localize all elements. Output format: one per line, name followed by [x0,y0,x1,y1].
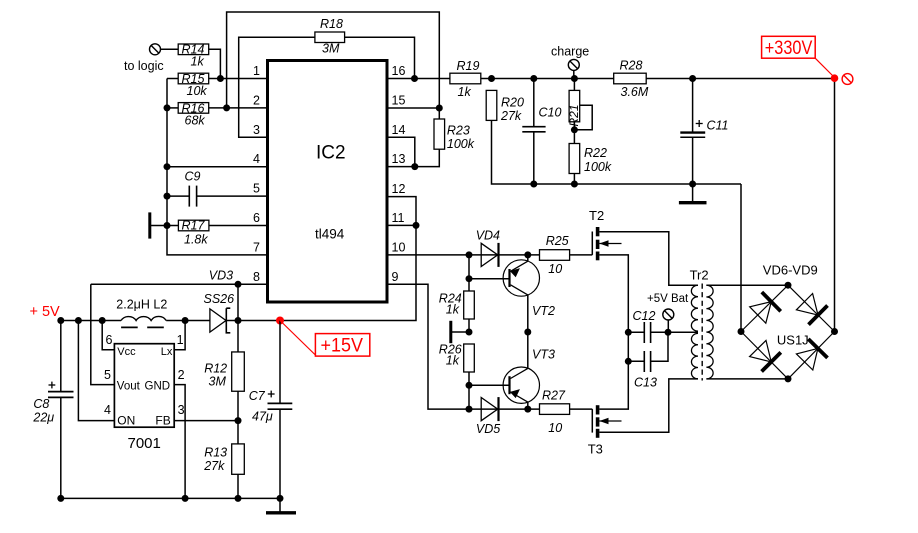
node +330V (red) [831,74,839,82]
node C8 top on +5V rail [57,317,64,324]
wire IC2 pin 10 to VD4/R25 [387,254,540,256]
ground symbol below C11 [679,184,707,203]
wire VD3 cathode to +15 rail [226,320,280,322]
node C11 top [689,75,696,82]
svg-text:C12: C12 [633,309,656,323]
node C8 bottom [57,495,64,502]
node pin 8 junction [235,281,242,288]
+330V callout (red) [762,36,835,77]
wire R14 to pin 1 junction [209,49,221,78]
wire 7001 Lx pin 1 to rail [174,321,185,350]
svg-text:1k: 1k [458,85,472,99]
wire VT2 base to R24 bus [469,278,510,280]
wire R17 to IC2 pin 6 [209,225,268,227]
wire R15 to IC2 pin 1 [209,78,268,80]
node GND on ground rail [182,495,189,502]
node R17 wire on ground bus [164,222,171,229]
wire 7001 GND pin 2 down to ground rail [174,385,185,499]
svg-text:R27: R27 [542,389,566,403]
svg-text:47μ: 47μ [252,410,273,424]
node FB/R12/R13 junction [235,417,242,424]
diode VD3 SS26 (schottky) [204,268,235,333]
node R20 top [488,75,495,82]
node C12/C13/center-tap junction [665,329,672,336]
svg-text:VD5: VD5 [476,422,500,436]
svg-text:5: 5 [104,368,111,382]
wire IC2 pin 15 to R23 top [387,107,439,109]
svg-text:C13: C13 [634,376,657,390]
node R21/R22 junction [571,126,578,133]
resistor R16 68k [178,101,209,127]
wire VT3 base [469,384,510,386]
mosfet T2 [589,208,622,260]
node R13 bottom [235,495,242,502]
svg-text:+15V: +15V [321,335,364,357]
resistor R20 27k [486,90,524,123]
connector "to logic" [124,44,164,73]
svg-text:VD4: VD4 [476,229,500,243]
IC2 left pin numbers 1-8 [253,64,260,284]
ground chassis bar at R17 [148,212,151,238]
transistor VT2 (pnp) [503,255,555,332]
svg-text:2.2μH L2: 2.2μH L2 [116,298,167,312]
mosfet T3 [588,405,622,456]
wire R25 to T2 gate [570,254,593,256]
resistor R17 1.8k [178,219,209,247]
wire IC2 pin 8 to 7001 Vout (left) [91,283,268,285]
svg-text:7001: 7001 [128,435,161,452]
wire pin 3 to R18 left [239,37,315,137]
wire R21 wiper tap [574,105,592,130]
svg-text:3: 3 [253,123,260,137]
svg-text:tl494: tl494 [315,227,345,242]
node ON on +5V rail [75,317,82,324]
svg-text:R18: R18 [320,17,343,31]
svg-text:15: 15 [392,94,406,108]
node Vcc on +5V rail [99,317,106,324]
ground chassis bar mid [451,321,469,343]
svg-text:22μ: 22μ [32,411,54,425]
node pin 11 junction [413,222,420,229]
svg-text:+5V Bat: +5V Bat [647,293,689,305]
wire IC2 pin 14 down to pin 13 [387,137,415,166]
svg-text:14: 14 [392,123,406,137]
svg-text:2: 2 [178,368,185,382]
wire lower ground rail [61,497,281,499]
node pin10/R24 top [466,251,473,258]
resistor R25 10 [540,234,570,276]
capacitor C10 [522,79,561,185]
bridge rectifier VD6-VD9 US1J [741,263,835,379]
svg-text:10: 10 [548,262,562,276]
wire ground bar to R17 [150,225,179,227]
capacitor C12 [628,309,668,343]
7001 pin numbers [104,333,185,417]
svg-text:charge: charge [551,45,589,59]
svg-text:VT2: VT2 [532,304,555,318]
node bridge top [785,282,792,289]
svg-text:Vout: Vout [117,380,141,392]
resistor R15 10k [178,72,209,98]
svg-text:R28: R28 [620,59,643,73]
node R18/pin16 junction [411,75,418,82]
svg-text:T3: T3 [588,442,603,457]
svg-text:R19: R19 [457,59,480,73]
svg-text:SS26: SS26 [204,292,235,306]
wire T2 source down to T3 source [599,255,628,409]
wire pin 8 junction down to +15V rail [237,284,239,320]
svg-text:+330V: +330V [765,37,813,59]
node C12 left on source rail [625,329,632,336]
wire L2 to VD3 [166,320,210,322]
node pin 15 / R23 [436,105,443,112]
svg-text:4: 4 [104,403,111,417]
svg-text:R20: R20 [501,96,524,110]
svg-text:IC2: IC2 [316,143,346,164]
capacitor C8 22u (polarized) [32,321,73,499]
svg-text:3M: 3M [209,375,227,389]
svg-text:3: 3 [178,403,185,417]
svg-text:16: 16 [392,64,406,78]
svg-text:C10: C10 [539,106,562,120]
wire 7001 FB pin 3 to R12/R13 junction [174,420,238,422]
connector +330V (red) [842,74,853,85]
svg-text:1k: 1k [446,353,460,367]
wire R19 to R28 (top rail) [481,78,614,80]
svg-text:R12: R12 [204,362,227,376]
svg-text:R17: R17 [182,219,206,233]
connector +5V Bat [647,293,689,332]
wire IC2 pin 4 to ground bus [167,166,268,168]
svg-text:4: 4 [253,152,260,166]
svg-text:FB: FB [155,414,170,428]
wire IC2 pin 12 down to +15V rail [280,197,416,321]
svg-text:C11: C11 [707,119,729,133]
svg-text:10: 10 [548,421,562,435]
svg-text:6: 6 [106,333,113,347]
svg-text:VT3: VT3 [532,348,555,362]
node +15V junction (red) [276,317,284,325]
resistor R27 10 [540,389,570,436]
wire 7001 Vcc pin 6 to +5V rail [102,321,114,350]
wire IC2 pin 13 [387,166,415,168]
wire R27 to T3 gate [570,408,593,410]
svg-text:VD6-VD9: VD6-VD9 [763,263,818,278]
wire R20 down to bottom rail corner [492,120,534,184]
resistor R28 3.6M [614,59,649,100]
wire R16 to IC2 pin 2 [209,107,268,109]
resistor R13 27k [203,421,244,499]
svg-text:6: 6 [253,211,260,225]
wire R16 left to ground bus [167,107,178,109]
svg-text:C9: C9 [185,170,201,184]
node junction R14/R15/pin1 [217,75,224,82]
capacitor C11 (polarized) [680,79,728,185]
svg-text:100k: 100k [447,137,475,151]
resistor R26 1k [439,343,475,410]
node C10 top [530,75,537,82]
capacitor C13 [628,332,668,389]
trimmer resistor R21 [567,79,581,144]
node C13 left on source rail [625,358,632,365]
svg-text:1.8k: 1.8k [184,233,208,247]
wire Tr2 secondary bottom to bridge bottom [706,378,788,380]
wire IC2 pin 11 [387,224,416,226]
svg-text:3M: 3M [322,42,340,56]
svg-text:100k: 100k [584,160,612,174]
wire ground bus (R15 left down to pin 7) [167,79,268,255]
transistor VT3 (pnp) [503,332,555,409]
node C10 bottom [530,181,537,188]
svg-text:10k: 10k [187,84,208,98]
svg-text:C7: C7 [249,389,266,403]
resistor R12 3M [204,321,244,421]
node bridge right [831,328,838,335]
node VD4 cathode / VT2 emitter [524,251,531,258]
svg-text:9: 9 [392,270,399,284]
connector "charge" [551,45,589,79]
svg-text:12: 12 [392,182,406,196]
svg-text:Lx: Lx [161,346,173,358]
node R24/R26/collector rail [466,329,473,336]
wire T2 drain to Tr2 primary top [599,232,698,285]
node charge / R21 top [571,75,578,82]
svg-text:ON: ON [117,414,135,428]
node R22 bottom [571,181,578,188]
svg-text:Tr2: Tr2 [690,268,709,283]
wire bottom rail down to bridge left node [740,184,742,332]
svg-text:1k: 1k [191,55,205,69]
capacitor C9 [167,170,268,207]
wire connector to R14 [161,48,179,50]
node pin 4 on ground bus [164,163,171,170]
resistor R23 100k [415,108,475,167]
node VT3 base junction [466,382,473,389]
svg-text:27k: 27k [500,109,522,123]
node VT2/VT3 collectors on center rail [524,329,531,336]
node R16 left on ground bus [164,104,171,111]
diode VD5 [476,397,500,436]
wire T3 drain to Tr2 primary bottom [599,379,698,432]
transformer Tr2 [690,268,714,381]
wire pin 16 to R19 [387,78,450,80]
node pin 13/14 junction [411,163,418,170]
svg-text:3.6M: 3.6M [621,85,649,99]
node VT2 base junction [466,275,473,282]
svg-text:R23: R23 [447,124,470,138]
svg-text:5: 5 [253,182,260,196]
node bridge bottom [785,375,792,382]
svg-text:VD3: VD3 [209,268,233,282]
svg-text:R25: R25 [546,234,569,248]
svg-text:7: 7 [253,240,260,254]
node R16 right / loop junction [223,104,230,111]
resistor R24 1k [439,255,475,332]
wire 7001 Vout pin 5 up to pin8 line [91,284,115,384]
regulator IC 7001 body [114,344,174,452]
svg-text:US1J: US1J [777,333,809,348]
svg-text:13: 13 [392,152,406,166]
wire IC2 pin 9 down to VD5 line [387,284,540,409]
node bridge left [738,328,745,335]
node C11 bottom [689,181,696,188]
wire +5V rail [61,320,121,322]
diode VD4 [476,229,500,267]
wire bridge right node up to +330V rail [834,79,836,332]
svg-text:1: 1 [253,64,260,78]
svg-text:Vcc: Vcc [117,346,136,358]
wire center tap to Tr2 [668,331,698,333]
svg-text:10: 10 [392,240,406,254]
svg-text:1k: 1k [446,302,460,316]
svg-text:R22: R22 [584,146,607,160]
svg-text:11: 11 [392,211,405,225]
IC2 right pin numbers 16-9 [392,64,406,284]
wire loop pin 2 to pin 15 (over top) [227,12,440,108]
ground symbol bottom [266,498,296,512]
svg-text:27k: 27k [203,459,225,473]
wire bottom rail (R20..bridge left) [534,183,741,185]
node C7 bottom / ground [277,495,284,502]
wire Tr2 secondary top to bridge top [706,284,788,286]
wire R22 to bottom rail [573,174,575,185]
resistor R22 100k [569,144,612,174]
svg-text:C8: C8 [33,397,49,411]
inductor L2 2.2uH [116,298,167,328]
+15V callout (red) [280,321,370,357]
svg-text:GND: GND [145,380,171,392]
svg-text:+ 5V: + 5V [30,304,61,320]
resistor R19 1k [450,59,481,99]
resistor R18 3M [315,17,345,56]
svg-text:T2: T2 [589,208,604,223]
op-amp/PWM controller IC2 (tl494) body [268,61,388,303]
wire R28 to +330V node [646,78,834,80]
node VD3/R12/pin-8 junction [235,317,242,324]
wire 7001 ON pin 4 to +5V rail [78,321,114,421]
svg-text:1: 1 [177,333,184,347]
capacitor C7 47u (polarized) [249,321,293,499]
svg-text:R13: R13 [204,446,227,460]
node pin9/R26 bottom [466,406,473,413]
node VD5 cathode / VT3 emitter [524,406,531,413]
wire R15 left to ground bus [167,78,178,80]
svg-text:8: 8 [253,270,260,284]
wire R18 right to pin 16 [345,37,415,78]
node C9 on ground bus [164,193,171,200]
svg-text:to logic: to logic [124,59,164,73]
node Lx on rail [182,317,189,324]
resistor R14 1k [178,43,209,69]
svg-text:68k: 68k [185,114,206,128]
svg-text:2: 2 [253,93,260,107]
